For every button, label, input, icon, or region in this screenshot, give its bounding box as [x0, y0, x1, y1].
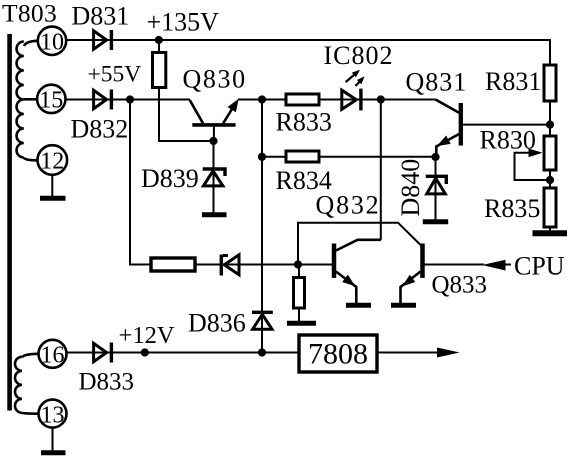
- junction dot R834 left: [258, 153, 266, 161]
- junction dot R831 bottom: [546, 121, 554, 129]
- wire from +55V dot down and feedback row: [130, 100, 332, 265]
- svg-text:+135V: +135V: [147, 8, 220, 37]
- resistor (pull-down at Q832 base): [294, 278, 305, 309]
- pin 15: [37, 85, 65, 114]
- junction dot +135V: [155, 36, 163, 44]
- pin 16: [39, 340, 67, 369]
- junction dot LED cathode node: [377, 95, 385, 103]
- svg-text:D831: D831: [72, 2, 130, 31]
- junction dot Q830 base node: [209, 137, 217, 145]
- svg-text:IC802: IC802: [324, 41, 394, 70]
- resistor R831: [544, 65, 556, 101]
- junction dot D836 bottom: [258, 348, 266, 356]
- svg-text:R833: R833: [276, 108, 332, 137]
- svg-text:Q831: Q831: [406, 68, 468, 97]
- R830 wiper arm: [515, 149, 551, 181]
- svg-text:D833: D833: [79, 369, 135, 396]
- resistor (feedback): [151, 258, 195, 271]
- svg-text:D839: D839: [141, 164, 199, 193]
- arrow from CPU: [482, 260, 506, 271]
- svg-text:D832: D832: [71, 115, 129, 144]
- wire R835 to ground: [549, 227, 551, 231]
- ground under D839: [202, 212, 227, 217]
- wire Q833 base to CPU: [425, 264, 512, 266]
- ground under pin 12: [40, 175, 66, 198]
- transistor Q833: [401, 244, 423, 304]
- transistor Q831: [436, 100, 461, 158]
- transformer T803 core: [7, 34, 12, 411]
- transformer primary winding (pins 10-15-12): [17, 41, 38, 161]
- wire R831 bottom to base node: [549, 101, 551, 136]
- svg-text:D840: D840: [396, 159, 425, 217]
- wire from LED node down to Q832 collector: [380, 100, 382, 240]
- svg-text:T803: T803: [2, 0, 57, 28]
- svg-text:Q830: Q830: [183, 65, 247, 94]
- wire +135V rail from pin10 through D831 to R831 top: [66, 40, 550, 65]
- wire 7808 output: [377, 352, 440, 354]
- ground under D840: [423, 219, 448, 224]
- junction dot Q831 emitter node: [431, 153, 439, 161]
- regulator 7808: [299, 335, 377, 372]
- wire Q830 emitter to Q831 collector along +55V line: [238, 99, 436, 101]
- ground under Q832 emitter: [346, 303, 371, 308]
- svg-text:7808: 7808: [308, 338, 368, 371]
- wire x262 from +55V rail down to +12V rail (through D836): [261, 100, 263, 353]
- wire +12V rail: [67, 352, 300, 354]
- wire Q831 base to R831 bottom: [463, 124, 550, 126]
- pin 10: [38, 27, 66, 56]
- junction dot Q832 base node: [294, 260, 302, 268]
- junction dot at x262 top: [258, 95, 266, 103]
- ground under R835: [533, 230, 567, 236]
- ground under pin 13: [41, 428, 66, 453]
- ground under pull-down resistor: [287, 321, 316, 326]
- svg-text:D836: D836: [188, 309, 246, 338]
- diode D833: [94, 343, 112, 363]
- pin 13: [39, 400, 67, 429]
- opto LED IC802: [342, 70, 365, 111]
- wire pulldown resistor to ground: [298, 265, 300, 322]
- resistor R835: [544, 188, 556, 227]
- junction dot R830 bottom: [546, 176, 554, 184]
- svg-text:CPU: CPU: [514, 252, 565, 281]
- zener D836: [252, 312, 273, 329]
- zener D839: [203, 141, 225, 213]
- arrow 7808 output: [437, 348, 460, 358]
- diode D832: [94, 90, 112, 110]
- svg-text:12: 12: [40, 149, 64, 175]
- svg-text:13: 13: [41, 402, 65, 428]
- wire from +135V dot to resistor and down to Q830 base node: [159, 40, 214, 141]
- wire R830 to R835: [549, 170, 551, 188]
- svg-text:15: 15: [39, 88, 63, 114]
- transistor Q832: [334, 240, 381, 303]
- junction dot +55V: [126, 95, 134, 103]
- svg-text:R830: R830: [480, 126, 536, 155]
- svg-text:Q833: Q833: [432, 272, 488, 299]
- junction dot +12V: [141, 348, 149, 356]
- wire +55V rail from pin15 to Q830 collector: [66, 99, 191, 101]
- wire R834 row: [262, 156, 436, 158]
- resistor (startup, under +135V): [153, 53, 166, 88]
- wire R833 to LED: [319, 99, 341, 101]
- svg-text:Q832: Q832: [316, 191, 381, 220]
- svg-text:10: 10: [40, 30, 64, 56]
- resistor R833: [286, 94, 319, 105]
- svg-text:+12V: +12V: [119, 322, 175, 349]
- diode D831: [94, 30, 112, 50]
- transistor Q830: [190, 99, 239, 141]
- svg-text:16: 16: [41, 343, 65, 369]
- svg-text:R831: R831: [485, 67, 541, 96]
- wire link Q832 base node to Q833 collector: [298, 223, 421, 265]
- zener D840: [426, 157, 447, 220]
- potentiometer R830: [544, 136, 556, 170]
- pin 12: [38, 145, 68, 175]
- transformer secondary winding (pins 16-13): [15, 354, 39, 414]
- svg-text:R835: R835: [484, 194, 540, 223]
- ground under Q833 emitter: [391, 303, 416, 308]
- resistor R834: [286, 151, 319, 162]
- svg-text:+55V: +55V: [88, 62, 142, 88]
- diode (feedback, pointing left): [221, 255, 239, 276]
